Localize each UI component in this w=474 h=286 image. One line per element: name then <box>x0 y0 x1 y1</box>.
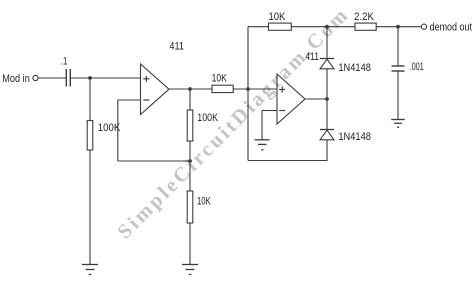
resistor R5 10K (top) <box>269 23 292 30</box>
wire node A down to R1 <box>89 78 91 121</box>
ground (left) <box>82 265 98 275</box>
node E junction (U2 output) <box>325 97 329 101</box>
svg-text:10K: 10K <box>197 196 211 208</box>
node G junction (C2 tap) <box>396 25 400 29</box>
svg-text:411: 411 <box>305 51 319 63</box>
svg-text:.1: .1 <box>61 56 68 68</box>
wire R4 to U2 + input <box>233 88 277 90</box>
svg-text:2.2K: 2.2K <box>354 11 374 23</box>
resistor R6 2.2K <box>355 23 376 30</box>
svg-text:10K: 10K <box>212 73 228 85</box>
svg-text:10K: 10K <box>269 11 286 23</box>
svg-text:100K: 100K <box>197 112 218 124</box>
wire U1 output <box>169 88 212 90</box>
svg-text:1N4148: 1N4148 <box>338 62 371 74</box>
node C junction <box>188 159 192 163</box>
wire node D up to top rail <box>247 27 249 89</box>
wire U2 output <box>305 98 327 100</box>
wire C2 to ground <box>397 71 399 120</box>
svg-text:411: 411 <box>169 41 184 53</box>
capacitor C2 .001 <box>392 66 405 71</box>
wire node D down to bottom feedback <box>247 89 249 161</box>
wire node C down to R3 <box>189 161 191 191</box>
capacitor C1 .1 <box>66 69 70 87</box>
terminal Mod in <box>33 75 38 80</box>
svg-text:SimpleCircuitDiagram.Com: SimpleCircuitDiagram.Com <box>114 5 352 243</box>
diode D2 1N4148 <box>320 130 334 140</box>
U1 - symbol <box>143 99 149 101</box>
diode D1 1N4148 <box>320 59 334 69</box>
node F junction (top of diode D1) <box>325 25 329 29</box>
resistor R2 100K <box>187 110 193 141</box>
wire top rail left <box>248 26 269 28</box>
wire R5 to R6 <box>291 26 355 28</box>
wire U2 - input <box>262 110 277 112</box>
wire node F down to D1 <box>326 27 328 59</box>
wire node E down to D2 <box>326 99 328 130</box>
wire D1 to node E <box>326 69 328 99</box>
wire terminal to C1 <box>38 77 66 79</box>
wire R6 to demod out <box>376 26 421 28</box>
op-amp U2 411 <box>277 74 305 124</box>
U1 + symbol <box>143 76 149 82</box>
wire R1 to ground <box>89 150 91 265</box>
U2 - symbol <box>279 110 285 112</box>
resistor R3 10K <box>187 191 193 223</box>
resistor R4 10K (horizontal) <box>212 85 233 92</box>
node D junction <box>246 87 250 91</box>
op-amp U1 411 <box>141 64 170 115</box>
node A junction <box>88 76 92 80</box>
wire node B down to R2 <box>189 89 191 110</box>
wire feedback bottom to node C <box>118 160 190 162</box>
wire U2 - to ground <box>261 111 263 140</box>
wire node G down to C2 <box>397 27 399 66</box>
svg-text:1N4148: 1N4148 <box>338 131 371 143</box>
terminal demod out <box>421 24 426 29</box>
wire feedback vertical <box>117 100 119 161</box>
svg-text:.001: .001 <box>410 61 424 73</box>
node B junction (U1 output) <box>188 87 192 91</box>
wire U1 - input feedback left <box>118 99 141 101</box>
svg-text:demod out: demod out <box>430 21 472 33</box>
ground (U2) <box>255 140 270 150</box>
wire bottom feedback to diode D2 <box>248 140 327 161</box>
wire R2 to node C <box>189 141 191 161</box>
wire C1 to op-amp U1 + input <box>71 77 141 79</box>
ground (C2) <box>391 120 405 128</box>
resistor R1 100K <box>87 121 93 151</box>
U2 + symbol <box>279 87 285 93</box>
svg-text:Mod in: Mod in <box>2 73 30 85</box>
ground (middle) <box>182 265 198 275</box>
wire R3 to ground <box>189 223 191 265</box>
